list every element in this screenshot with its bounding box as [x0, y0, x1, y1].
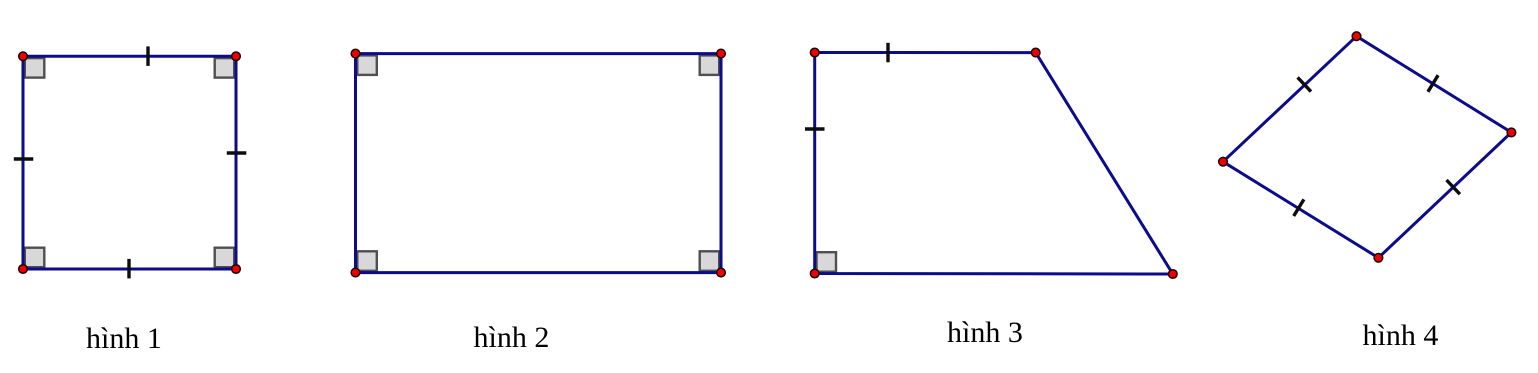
tick mark upper-left side of rhombus — [1298, 77, 1311, 91]
right-angle marker TR of rectangle — [700, 55, 720, 75]
tick mark right side of square — [227, 151, 247, 154]
right-angle marker BR of rectangle — [700, 251, 720, 270]
vertex dot BR of trapezoid — [1169, 270, 1178, 279]
square outline — [23, 56, 236, 269]
svg-text:hình 1: hình 1 — [86, 322, 162, 355]
vertex dot bottom of rhombus — [1374, 253, 1383, 262]
tick mark lower-right side of rhombus — [1447, 180, 1460, 194]
svg-text:hình 3: hình 3 — [947, 316, 1023, 349]
svg-text:hình 4: hình 4 — [1363, 319, 1439, 352]
right-angle marker TL of rectangle — [357, 55, 377, 75]
right-angle marker BL of square — [25, 248, 45, 268]
vertex dot BL of rectangle — [351, 268, 360, 277]
right-angle marker BL of rectangle — [357, 251, 377, 270]
right-angle marker TR of square — [215, 58, 235, 78]
right-angle marker BR of square — [215, 248, 235, 268]
tick mark top side of trapezoid — [886, 43, 889, 63]
vertex dot right of rhombus — [1507, 128, 1516, 137]
vertex dot TR of trapezoid — [1031, 48, 1040, 57]
tick mark bottom side of square — [127, 259, 130, 279]
right-angle marker TL of square — [25, 58, 45, 78]
right-angle marker BL of trapezoid — [817, 252, 837, 272]
vertex dot BR of square — [232, 265, 241, 274]
vertex dot BR of rectangle — [717, 268, 726, 277]
vertex dot top of rhombus — [1352, 32, 1361, 41]
rectangle outline — [356, 54, 722, 273]
trapezoid outline — [815, 53, 1173, 275]
vertex dot TL of rectangle — [351, 49, 360, 58]
vertex dot BL of square — [19, 265, 28, 274]
svg-text:hình 2: hình 2 — [474, 321, 550, 354]
tick mark top side of square — [146, 46, 149, 66]
vertex dot left of rhombus — [1219, 157, 1228, 166]
tick mark lower-left side of rhombus — [1294, 199, 1304, 216]
vertex dot TL of square — [19, 52, 28, 61]
tick mark upper-right side of rhombus — [1428, 75, 1438, 92]
tick mark left side of trapezoid — [805, 127, 825, 130]
vertex dot BL of trapezoid — [810, 269, 819, 278]
vertex dot TL of trapezoid — [810, 48, 819, 57]
vertex dot TR of rectangle — [717, 49, 726, 58]
rhombus outline — [1223, 36, 1511, 258]
vertex dot TR of square — [232, 52, 241, 61]
tick mark left side of square — [14, 157, 34, 160]
